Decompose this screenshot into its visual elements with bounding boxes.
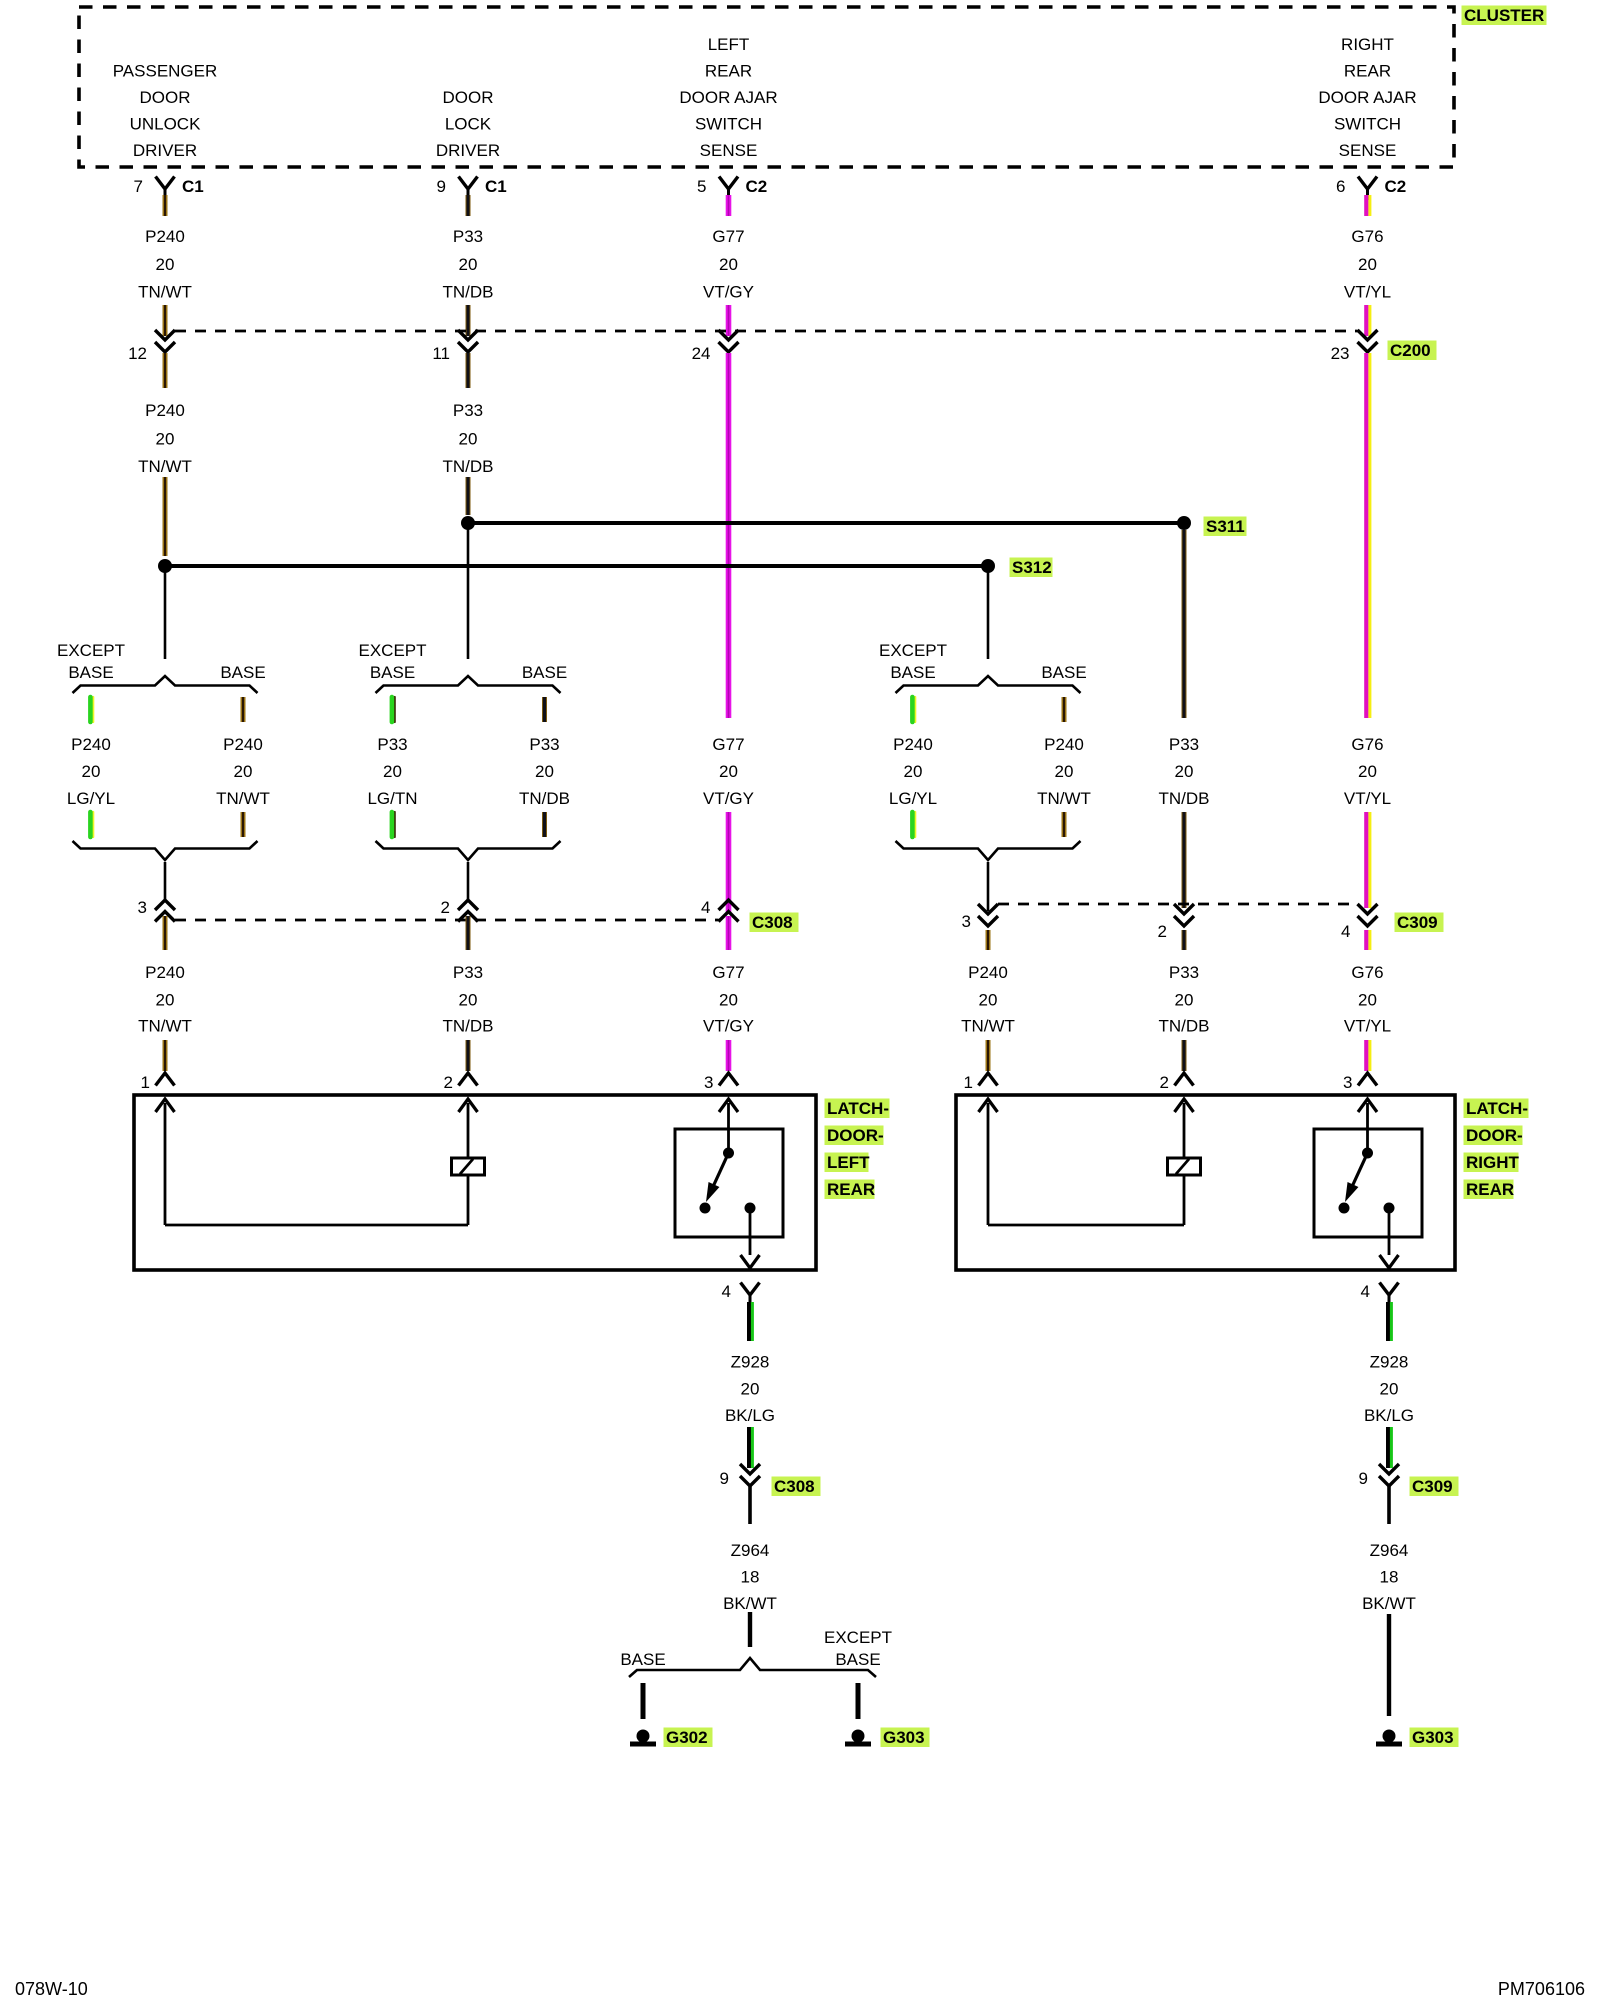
connector pin 5 C2 at cluster [697, 177, 767, 201]
latch door left rear switch moving contact arm [706, 1153, 729, 1202]
latch door left rear switch output contact and wire [741, 1203, 760, 1269]
left group bottom brace [73, 841, 258, 860]
svg-text:TN/WT: TN/WT [138, 457, 192, 476]
svg-text:DOOR-: DOOR- [1466, 1126, 1523, 1145]
svg-text:P240: P240 [1044, 735, 1084, 754]
svg-text:Z928: Z928 [1370, 1353, 1409, 1372]
svg-text:EXCEPT: EXCEPT [824, 1628, 892, 1647]
left group option wire LG/YL [67, 697, 115, 837]
svg-text:1: 1 [141, 1073, 150, 1092]
connector C308 (lower) label [772, 1477, 821, 1497]
svg-text:C1: C1 [485, 177, 507, 196]
svg-text:BASE: BASE [890, 663, 935, 682]
svg-text:18: 18 [1380, 1568, 1399, 1587]
wire G76 20 VT/YL from pin6 [1344, 195, 1391, 336]
svg-text:BASE: BASE [1041, 663, 1086, 682]
svg-text:20: 20 [156, 991, 175, 1010]
middle group bottom brace [376, 841, 561, 860]
svg-text:SWITCH: SWITCH [1334, 115, 1401, 134]
svg-text:RIGHT: RIGHT [1466, 1153, 1520, 1172]
wire P33 20 TN/DB below C200 [443, 353, 494, 515]
svg-text:20: 20 [904, 762, 923, 781]
svg-text:LG/TN: LG/TN [367, 789, 417, 808]
svg-text:Z964: Z964 [731, 1541, 770, 1560]
svg-text:20: 20 [156, 255, 175, 274]
splice S312 line [165, 564, 988, 568]
svg-text:DOOR AJAR: DOOR AJAR [679, 88, 777, 107]
svg-text:20: 20 [156, 430, 175, 449]
svg-text:BASE: BASE [68, 663, 113, 682]
ground G303 symbol (right) [1383, 1730, 1396, 1743]
connector C309 (lower) chevrons [1359, 1464, 1399, 1524]
cluster dashed box [79, 7, 1454, 167]
left latch pin 4 connector [722, 1282, 760, 1306]
svg-text:TN/DB: TN/DB [443, 457, 494, 476]
cluster pin label: door lock driver [436, 88, 500, 160]
svg-text:20: 20 [82, 762, 101, 781]
svg-text:7: 7 [134, 177, 143, 196]
svg-text:TN/WT: TN/WT [138, 283, 192, 302]
wire P240 20 TN/WT from pin7 [138, 195, 192, 336]
cluster pin label: passenger door unlock driver [113, 62, 218, 161]
left latch pin 1 connector [141, 1073, 175, 1092]
svg-text:VT/YL: VT/YL [1344, 789, 1391, 808]
C200 pin 11 chevrons [432, 330, 478, 363]
svg-text:P33: P33 [1169, 735, 1199, 754]
svg-text:REAR: REAR [827, 1180, 875, 1199]
svg-text:LOCK: LOCK [445, 115, 492, 134]
right latch pin 4 connector [1361, 1282, 1399, 1306]
wire P33 TN/DB into left latch pin2 [443, 916, 494, 1071]
wire P240 TN/WT into left latch pin1 [138, 916, 192, 1071]
wire from S312 to right brace [987, 566, 990, 659]
svg-text:20: 20 [719, 991, 738, 1010]
ground wire to G302 [641, 1683, 646, 1719]
svg-text:G76: G76 [1351, 227, 1383, 246]
latch door right rear pin1 internal arrow and wire [979, 1099, 1185, 1225]
svg-text:P240: P240 [223, 735, 263, 754]
svg-text:P33: P33 [453, 401, 483, 420]
connector C309 dashed line [998, 903, 1358, 906]
latch door left rear pin1 internal arrow and wire [156, 1099, 469, 1225]
wire Z964 18 BK/WT right [1362, 1541, 1416, 1716]
svg-text:DOOR: DOOR [443, 88, 494, 107]
svg-text:20: 20 [234, 762, 253, 781]
svg-text:DOOR AJAR: DOOR AJAR [1318, 88, 1416, 107]
svg-text:2: 2 [1158, 922, 1167, 941]
svg-text:24: 24 [692, 344, 711, 363]
svg-text:Z964: Z964 [1370, 1541, 1409, 1560]
svg-text:4: 4 [722, 1282, 731, 1301]
svg-text:DOOR-: DOOR- [827, 1126, 884, 1145]
ground G303 label (right) [1410, 1728, 1459, 1748]
svg-text:23: 23 [1331, 344, 1350, 363]
svg-text:DRIVER: DRIVER [133, 141, 197, 160]
right group wire below brace [987, 862, 990, 911]
connector pin 9 C1 at cluster [437, 177, 507, 201]
svg-text:S312: S312 [1012, 558, 1052, 577]
ground wire to G303 (middle) [856, 1683, 861, 1719]
svg-text:12: 12 [128, 344, 147, 363]
svg-text:SENSE: SENSE [1339, 141, 1397, 160]
svg-text:3: 3 [704, 1073, 713, 1092]
wire P33 20 TN/DB from pin9 [443, 195, 494, 336]
wire from S312 to left brace [164, 566, 167, 659]
connector C200 label [1388, 341, 1437, 361]
right group bottom brace [896, 841, 1081, 860]
cluster pin label: right rear door ajar switch sense [1318, 35, 1416, 160]
svg-text:20: 20 [383, 762, 402, 781]
svg-text:C1: C1 [182, 177, 204, 196]
svg-text:20: 20 [1175, 991, 1194, 1010]
middle group BASE label [522, 663, 567, 682]
svg-text:TN/WT: TN/WT [961, 1017, 1015, 1036]
splice S311 label [1204, 517, 1247, 537]
cluster pin label: left rear door ajar switch sense [679, 35, 777, 160]
svg-text:BASE: BASE [835, 1650, 880, 1669]
C200 pin 24 chevrons [692, 330, 739, 363]
svg-text:TN/DB: TN/DB [1159, 1017, 1210, 1036]
C309 pin 2 chevrons [1158, 904, 1194, 941]
svg-text:EXCEPT: EXCEPT [57, 641, 125, 660]
svg-text:5: 5 [697, 177, 706, 196]
wire G77 VT/GY into left latch pin3 [703, 916, 754, 1071]
wire label P33 20 TN/DB right column [1159, 735, 1210, 908]
right latch pin 1 connector [964, 1073, 998, 1092]
right group EXCEPT BASE label [879, 641, 947, 682]
latch door right rear switch lower-left contact [1339, 1203, 1350, 1214]
svg-text:18: 18 [741, 1568, 760, 1587]
wire P33 TN/DB into right latch pin2 [1159, 930, 1210, 1071]
svg-text:G76: G76 [1351, 735, 1383, 754]
wire Z928 20 BK/LG right [1364, 1302, 1414, 1468]
svg-text:20: 20 [1358, 762, 1377, 781]
svg-text:3: 3 [962, 912, 971, 931]
svg-text:PM706106: PM706106 [1498, 1979, 1585, 1999]
svg-text:LATCH-: LATCH- [827, 1099, 889, 1118]
latch door right rear switch common contact [1358, 1099, 1377, 1159]
svg-text:DRIVER: DRIVER [436, 141, 500, 160]
latch door right rear box [956, 1095, 1455, 1270]
svg-text:LEFT: LEFT [827, 1153, 870, 1172]
svg-text:G303: G303 [1412, 1728, 1454, 1747]
svg-text:P33: P33 [453, 227, 483, 246]
svg-text:C308: C308 [774, 1477, 815, 1496]
wire Z928 20 BK/LG left [725, 1302, 775, 1468]
wire G77 VT/GY below C200 (continuous) [726, 353, 732, 718]
svg-text:P240: P240 [145, 227, 185, 246]
svg-text:9: 9 [720, 1469, 729, 1488]
svg-text:VT/GY: VT/GY [703, 283, 754, 302]
middle group option wire LG/TN [367, 697, 417, 837]
ground G302 label [664, 1728, 713, 1748]
middle group top brace [376, 676, 561, 693]
splice S312 label [1010, 558, 1053, 578]
connector C308 (lower) chevrons [720, 1464, 760, 1524]
connector C309 label [1395, 913, 1444, 933]
svg-text:C2: C2 [746, 177, 768, 196]
svg-text:BK/WT: BK/WT [723, 1594, 777, 1613]
svg-text:P240: P240 [145, 401, 185, 420]
svg-text:9: 9 [437, 177, 446, 196]
svg-text:20: 20 [459, 255, 478, 274]
wire G77 20 VT/GY from pin5 [703, 195, 754, 336]
connector pin 7 C1 at cluster [134, 177, 204, 201]
latch door left rear label [825, 1099, 890, 1200]
svg-text:G77: G77 [712, 963, 744, 982]
C308 pin 4 chevrons [701, 898, 738, 922]
connector C200 dashed line [175, 330, 1358, 333]
svg-text:REAR: REAR [1344, 62, 1391, 81]
svg-text:REAR: REAR [1466, 1180, 1514, 1199]
wire P240 20 TN/WT below C200 [138, 353, 192, 556]
right group option wire LG/YL [889, 697, 937, 837]
C309 pin 3 chevrons [962, 904, 998, 931]
svg-text:20: 20 [1055, 762, 1074, 781]
svg-text:TN/WT: TN/WT [138, 1017, 192, 1036]
svg-text:BASE: BASE [220, 663, 265, 682]
svg-text:VT/GY: VT/GY [703, 789, 754, 808]
svg-text:2: 2 [1160, 1073, 1169, 1092]
svg-text:P33: P33 [529, 735, 559, 754]
wire P240 TN/WT into right latch pin1 [961, 930, 1015, 1071]
svg-text:C309: C309 [1412, 1477, 1453, 1496]
C200 pin 23 chevrons [1331, 330, 1378, 363]
svg-text:G302: G302 [666, 1728, 708, 1747]
right group BASE label [1041, 663, 1086, 682]
svg-text:P240: P240 [145, 963, 185, 982]
svg-text:20: 20 [719, 762, 738, 781]
splice S311 line [468, 521, 1184, 525]
latch door left rear box [134, 1095, 816, 1270]
latch door left rear switch sub-box [675, 1129, 783, 1237]
svg-text:VT/YL: VT/YL [1344, 283, 1391, 302]
svg-text:LEFT: LEFT [708, 35, 750, 54]
svg-text:VT/YL: VT/YL [1344, 1017, 1391, 1036]
svg-text:3: 3 [1343, 1073, 1352, 1092]
svg-text:SWITCH: SWITCH [695, 115, 762, 134]
wire G76 VT/YL into right latch pin3 [1344, 930, 1391, 1071]
svg-text:PASSENGER: PASSENGER [113, 62, 218, 81]
svg-text:9: 9 [1359, 1469, 1368, 1488]
svg-text:11: 11 [432, 344, 450, 363]
svg-text:20: 20 [535, 762, 554, 781]
C308 pin 3 chevrons [138, 898, 175, 922]
splice S312 junction dots [158, 559, 172, 573]
left group wire below brace [164, 862, 167, 899]
right group option wire TN/WT [1037, 697, 1091, 837]
svg-text:20: 20 [1358, 255, 1377, 274]
middle group option wire TN/DB [519, 697, 570, 837]
C308 pin 2 chevrons [441, 898, 478, 922]
svg-text:2: 2 [444, 1073, 453, 1092]
svg-text:1: 1 [964, 1073, 973, 1092]
svg-text:CLUSTER: CLUSTER [1464, 6, 1544, 25]
svg-text:20: 20 [1380, 1380, 1399, 1399]
svg-text:P240: P240 [893, 735, 933, 754]
right group top brace [896, 676, 1081, 693]
ground G303 symbol (middle) [852, 1730, 865, 1743]
bottom option brace [629, 1658, 876, 1677]
wire G76 VT/YL below C200 (continuous) [1366, 353, 1370, 718]
svg-text:BK/WT: BK/WT [1362, 1594, 1416, 1613]
connector C308 dashed line [175, 919, 719, 922]
latch door right rear switch output contact and wire [1380, 1203, 1399, 1269]
svg-text:20: 20 [459, 991, 478, 1010]
svg-text:Z928: Z928 [731, 1353, 770, 1372]
svg-text:C308: C308 [752, 913, 793, 932]
splice S311 junction dots [461, 516, 475, 530]
svg-text:TN/DB: TN/DB [519, 789, 570, 808]
left latch pin 2 connector [444, 1073, 478, 1092]
middle group EXCEPT BASE label [358, 641, 426, 682]
wire from S311 to middle brace [467, 523, 470, 659]
svg-text:TN/DB: TN/DB [443, 283, 494, 302]
svg-text:C2: C2 [1385, 177, 1407, 196]
bottom BASE label [620, 1650, 665, 1669]
svg-text:20: 20 [1175, 762, 1194, 781]
latch door left rear switch common contact [719, 1099, 738, 1159]
left group option wire TN/WT [216, 697, 270, 837]
svg-text:2: 2 [441, 898, 450, 917]
ground G303 label (middle) [881, 1728, 930, 1748]
svg-text:4: 4 [701, 898, 710, 917]
connector C309 (lower) label [1410, 1477, 1459, 1497]
svg-text:4: 4 [1361, 1282, 1370, 1301]
svg-text:TN/DB: TN/DB [1159, 789, 1210, 808]
left latch pin 3 connector [704, 1073, 738, 1092]
wire label G76 20 VT/YL right column [1344, 735, 1391, 908]
latch door right rear switch moving contact arm [1345, 1153, 1368, 1202]
svg-text:BASE: BASE [522, 663, 567, 682]
svg-text:LATCH-: LATCH- [1466, 1099, 1528, 1118]
right latch pin 3 connector [1343, 1073, 1377, 1092]
svg-text:G77: G77 [712, 735, 744, 754]
svg-text:LG/YL: LG/YL [889, 789, 937, 808]
svg-text:C309: C309 [1397, 913, 1438, 932]
latch door right rear label [1464, 1099, 1529, 1200]
left group top brace [73, 676, 258, 693]
connector pin 6 C2 at cluster [1336, 177, 1406, 201]
svg-text:TN/WT: TN/WT [216, 789, 270, 808]
svg-text:G77: G77 [712, 227, 744, 246]
svg-text:G303: G303 [883, 1728, 925, 1747]
svg-text:6: 6 [1336, 177, 1345, 196]
svg-text:3: 3 [138, 898, 147, 917]
svg-text:C200: C200 [1390, 341, 1431, 360]
svg-text:P240: P240 [968, 963, 1008, 982]
svg-text:20: 20 [1358, 991, 1377, 1010]
latch door left rear resistor element [452, 1099, 485, 1225]
svg-text:REAR: REAR [705, 62, 752, 81]
svg-text:VT/GY: VT/GY [703, 1017, 754, 1036]
svg-text:BASE: BASE [370, 663, 415, 682]
svg-text:P33: P33 [453, 963, 483, 982]
svg-text:P240: P240 [71, 735, 111, 754]
cluster label CLUSTER [1462, 6, 1547, 26]
svg-text:EXCEPT: EXCEPT [358, 641, 426, 660]
left group EXCEPT BASE label [57, 641, 125, 682]
connector C308 label [750, 913, 799, 933]
latch door left rear switch lower-left contact [700, 1203, 711, 1214]
svg-text:20: 20 [459, 430, 478, 449]
wire label G77 20 VT/GY left column [703, 735, 754, 912]
svg-text:UNLOCK: UNLOCK [130, 115, 202, 134]
ground G302 symbol [637, 1730, 650, 1743]
svg-text:P33: P33 [377, 735, 407, 754]
bottom EXCEPT BASE label [824, 1628, 892, 1669]
svg-text:BK/LG: BK/LG [725, 1406, 775, 1425]
latch door right rear resistor element [1168, 1099, 1201, 1225]
svg-text:P33: P33 [1169, 963, 1199, 982]
svg-text:BK/LG: BK/LG [1364, 1406, 1414, 1425]
C309 pin 4 chevrons [1341, 904, 1377, 941]
svg-text:4: 4 [1341, 922, 1350, 941]
right latch pin 2 connector [1160, 1073, 1194, 1092]
svg-text:TN/WT: TN/WT [1037, 789, 1091, 808]
svg-text:20: 20 [719, 255, 738, 274]
left group BASE label [220, 663, 265, 682]
svg-text:078W-10: 078W-10 [15, 1979, 88, 1999]
svg-text:RIGHT: RIGHT [1341, 35, 1394, 54]
svg-text:DOOR: DOOR [140, 88, 191, 107]
svg-text:LG/YL: LG/YL [67, 789, 115, 808]
svg-text:BASE: BASE [620, 1650, 665, 1669]
middle group wire below brace [467, 862, 470, 899]
svg-text:20: 20 [741, 1380, 760, 1399]
svg-text:G76: G76 [1351, 963, 1383, 982]
latch door right rear switch sub-box [1314, 1129, 1422, 1237]
svg-text:TN/DB: TN/DB [443, 1017, 494, 1036]
svg-text:EXCEPT: EXCEPT [879, 641, 947, 660]
svg-text:20: 20 [979, 991, 998, 1010]
wire Z964 18 BK/WT left [723, 1541, 777, 1647]
svg-text:S311: S311 [1206, 517, 1245, 536]
C200 pin 12 chevrons [128, 330, 175, 363]
wire P33 TN/DB from S311 down right side [1182, 530, 1187, 718]
svg-text:SENSE: SENSE [700, 141, 758, 160]
